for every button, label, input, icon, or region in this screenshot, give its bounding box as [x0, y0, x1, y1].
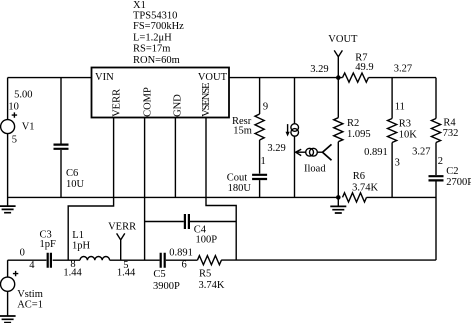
svg-text:R3: R3	[399, 119, 411, 130]
net label VERR	[108, 222, 136, 261]
svg-text:VOUT: VOUT	[198, 72, 228, 83]
wire L1 to C5	[110, 259, 160, 261]
svg-text:1.095: 1.095	[347, 129, 371, 140]
svg-text:100P: 100P	[196, 235, 218, 246]
svg-text:732: 732	[443, 128, 459, 139]
svg-text:6: 6	[182, 259, 187, 270]
svg-text:9: 9	[263, 102, 268, 113]
svg-text:COMP: COMP	[142, 87, 153, 117]
voltage source V1	[1, 78, 35, 206]
svg-text:VERR: VERR	[108, 222, 136, 233]
svg-text:C6: C6	[66, 168, 78, 179]
svg-text:Cout: Cout	[227, 172, 248, 183]
ground at R2	[330, 197, 346, 213]
svg-text:VERR: VERR	[112, 89, 123, 117]
resistor R5 3.74K	[197, 256, 224, 292]
svg-text:15m: 15m	[233, 126, 252, 137]
svg-text:10K: 10K	[399, 129, 418, 140]
svg-text:180U: 180U	[228, 183, 252, 194]
resistor R7 49.9	[343, 52, 374, 82]
IC X1 parameter text block (X1 TPS54310 FS/L/RS/RON)	[133, 0, 184, 66]
svg-text:RS=17m: RS=17m	[133, 43, 170, 54]
svg-text:TPS54310: TPS54310	[133, 10, 177, 21]
resistor R4 732	[412, 78, 458, 175]
wire GND pin to ground rail	[174, 118, 176, 198]
resistor R3 10K	[364, 78, 417, 198]
net label VOUT	[328, 34, 358, 80]
svg-text:4: 4	[29, 260, 35, 271]
IC X1 TPS54310 body	[92, 68, 230, 118]
ground at V1	[0, 206, 16, 213]
junction node at ground dot	[336, 195, 341, 200]
wire COMP pin down	[144, 118, 146, 261]
svg-text:FS=700kHz: FS=700kHz	[133, 21, 184, 32]
capacitor C2 2700P	[429, 166, 471, 260]
capacitor Cout 180U	[227, 156, 267, 197]
wire VIN from V1 to IC	[8, 77, 92, 79]
svg-text:2: 2	[438, 156, 443, 167]
svg-text:3900P: 3900P	[153, 281, 180, 292]
capacitor C3 1pF	[40, 229, 57, 267]
ground rail wire	[8, 196, 339, 198]
wire C5 to R5	[166, 259, 198, 261]
resistor R6 3.74K	[343, 171, 436, 202]
svg-text:3.74K: 3.74K	[352, 183, 378, 194]
svg-text:GND: GND	[173, 94, 184, 117]
svg-text:2700P: 2700P	[446, 177, 471, 188]
svg-text:5.00: 5.00	[14, 90, 32, 101]
voltage source Vstim AC=1	[1, 247, 43, 315]
svg-text:R5: R5	[199, 268, 211, 279]
svg-text:0.891: 0.891	[169, 248, 193, 259]
svg-text:L1: L1	[72, 230, 84, 241]
svg-text:R2: R2	[347, 118, 359, 129]
svg-text:5: 5	[12, 134, 17, 145]
wire bottom feedback loop	[221, 259, 436, 261]
svg-text:1pF: 1pF	[40, 239, 57, 250]
wire VOUT rail	[229, 77, 436, 79]
svg-text:Iload: Iload	[304, 163, 326, 174]
svg-text:11: 11	[395, 102, 405, 113]
svg-text:R4: R4	[443, 118, 456, 129]
wire bottom from Vstim to C3	[8, 259, 47, 261]
wire VERR pin to node 8	[68, 118, 113, 261]
capacitor C4 100P	[145, 214, 236, 246]
svg-text:0: 0	[20, 247, 25, 258]
ground at Vstim	[0, 316, 16, 323]
svg-text:AC=1: AC=1	[17, 299, 43, 310]
wire VSENSE pin elbow	[206, 118, 236, 261]
current probe arrow symbol	[296, 144, 332, 160]
svg-text:3.74K: 3.74K	[199, 280, 225, 291]
svg-text:10: 10	[8, 102, 19, 113]
svg-text:3.27: 3.27	[394, 63, 412, 74]
svg-text:3: 3	[395, 158, 400, 169]
svg-text:RON=60m: RON=60m	[133, 55, 180, 66]
capacitor C5 3900P	[153, 253, 180, 292]
resistor R2 1.095	[334, 78, 371, 198]
svg-text:R6: R6	[353, 171, 365, 182]
svg-text:3.27: 3.27	[412, 147, 430, 158]
svg-text:C5: C5	[153, 269, 165, 280]
resistor Resr 15m	[232, 78, 286, 174]
svg-text:1.44: 1.44	[63, 268, 82, 279]
svg-text:3.29: 3.29	[267, 143, 285, 154]
svg-text:1pH: 1pH	[72, 240, 91, 251]
svg-text:49.9: 49.9	[355, 62, 373, 73]
svg-text:3.29: 3.29	[310, 64, 328, 75]
current source Iload	[286, 78, 327, 198]
svg-text:L=1.2μH: L=1.2μH	[133, 33, 172, 44]
svg-text:1: 1	[261, 156, 266, 167]
inductor L1 1pH	[72, 230, 110, 260]
svg-text:0.891: 0.891	[364, 147, 388, 158]
svg-text:V1: V1	[22, 122, 35, 133]
svg-text:10U: 10U	[66, 179, 85, 190]
wire C3 to L1	[53, 259, 80, 261]
svg-text:C2: C2	[446, 166, 458, 177]
svg-text:1.44: 1.44	[117, 268, 136, 279]
svg-text:VSENSE: VSENSE	[201, 83, 212, 117]
svg-text:VIN: VIN	[95, 72, 114, 83]
svg-text:VOUT: VOUT	[328, 34, 358, 45]
capacitor C6	[54, 78, 85, 198]
